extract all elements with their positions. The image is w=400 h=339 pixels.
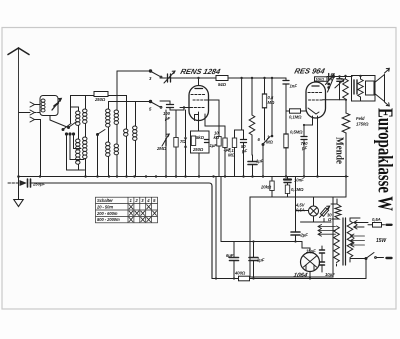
svg-text:1μF: 1μF — [256, 159, 264, 164]
svg-text:20 - 50m: 20 - 50m — [96, 204, 113, 209]
svg-text:1064: 1064 — [293, 272, 309, 279]
svg-text:1nF: 1nF — [290, 84, 298, 89]
svg-text:pF: pF — [301, 146, 308, 151]
svg-text:Mende: Mende — [334, 137, 346, 164]
svg-text:MΩ: MΩ — [228, 153, 235, 158]
svg-text:5kΩ: 5kΩ — [196, 135, 205, 140]
svg-text:RES 964: RES 964 — [294, 67, 327, 76]
svg-text:10nF: 10nF — [294, 178, 304, 183]
svg-text:15W: 15W — [376, 238, 387, 244]
svg-text:Europaklasse W: Europaklasse W — [374, 108, 398, 211]
svg-text:20kΩ: 20kΩ — [260, 185, 272, 190]
svg-text:Ω: Ω — [327, 217, 332, 222]
svg-text:2μF: 2μF — [256, 258, 265, 263]
svg-text:0,5MΩ: 0,5MΩ — [290, 130, 303, 135]
svg-text:0,5A: 0,5A — [296, 208, 305, 213]
svg-text:pF: pF — [164, 116, 171, 121]
svg-text:0,1MΩ: 0,1MΩ — [291, 187, 304, 192]
svg-text:0,1MΩ: 0,1MΩ — [289, 115, 302, 120]
svg-text:400Ω: 400Ω — [234, 271, 246, 276]
svg-text:6μF: 6μF — [226, 253, 234, 258]
svg-text:1750Ω: 1750Ω — [356, 122, 369, 127]
svg-text:10μF: 10μF — [325, 272, 335, 277]
svg-text:54Ω: 54Ω — [218, 82, 227, 87]
svg-text:800 - 2000m: 800 - 2000m — [97, 217, 120, 222]
svg-text:0,5A: 0,5A — [372, 217, 381, 222]
svg-text:MΩ: MΩ — [268, 100, 275, 105]
svg-text:2μF: 2μF — [300, 233, 309, 238]
svg-text:Schalter: Schalter — [97, 198, 113, 203]
svg-text:RENS 1284: RENS 1284 — [180, 67, 223, 76]
svg-text:pF: pF — [241, 149, 248, 154]
svg-text:250pF: 250pF — [32, 182, 45, 187]
svg-text:2MΩ: 2MΩ — [156, 146, 167, 151]
svg-text:250Ω: 250Ω — [192, 147, 204, 152]
svg-text:200 - 600m: 200 - 600m — [96, 211, 118, 216]
svg-text:15μF: 15μF — [306, 249, 316, 254]
svg-text:7Ω: 7Ω — [180, 139, 186, 144]
svg-text:kΩ: kΩ — [214, 135, 220, 140]
svg-text:250Ω: 250Ω — [94, 97, 106, 102]
svg-text:1μF: 1μF — [210, 143, 218, 148]
svg-text:10kΩ: 10kΩ — [316, 78, 325, 82]
svg-text:MΩ: MΩ — [266, 140, 273, 145]
svg-text:Feld: Feld — [356, 116, 365, 121]
